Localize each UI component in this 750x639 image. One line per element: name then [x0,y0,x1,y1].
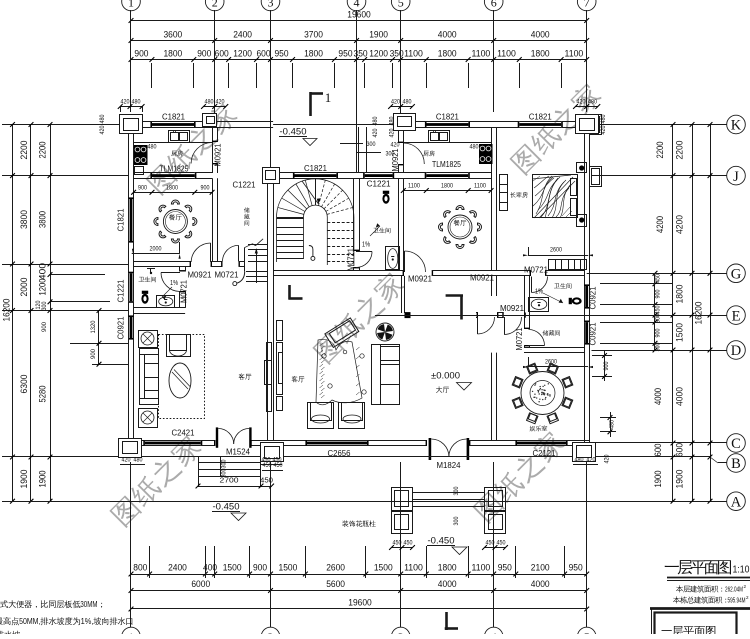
svg-text:600: 600 [215,49,229,59]
svg-text:C2121: C2121 [533,449,556,458]
svg-text:±0.000: ±0.000 [431,371,460,382]
svg-text:-0.450: -0.450 [213,502,240,513]
svg-text:2000: 2000 [19,278,30,297]
kitchen1 stove black [134,145,148,165]
living2 sofa 3-seat east [372,345,400,405]
svg-text:M1524: M1524 [226,448,250,457]
svg-text:2600: 2600 [550,247,562,254]
svg-text:1100: 1100 [472,49,491,59]
living2 small circles decor [360,354,364,358]
entertainment label 娱乐室 [530,425,548,431]
section mark 1 bottom [445,612,448,630]
living2 armchair 1 [308,403,334,429]
kitchen2 stove black [479,144,493,164]
svg-text:C1221: C1221 [233,181,256,190]
vase column dims 450 450 left [392,547,413,549]
svg-text:1500: 1500 [374,563,393,573]
wall axis5 kitchen2 west with door M0921 [398,127,400,143]
svg-text:300: 300 [221,468,228,477]
svg-text:1: 1 [128,630,134,634]
svg-text:420: 420 [600,125,607,134]
svg-text:2: 2 [268,630,274,634]
svg-text:480: 480 [148,144,157,151]
svg-text:2600: 2600 [326,563,345,573]
svg-text:450: 450 [655,305,662,314]
stair up arrow first flight [256,250,258,283]
svg-text:M1824: M1824 [437,461,461,470]
living1 label 客厅 [239,373,252,379]
svg-text:1800: 1800 [438,49,457,59]
ne corner pilaster [576,115,599,134]
svg-text:450: 450 [486,540,495,547]
top extension lines [130,63,132,88]
storage2 dim 2600 [528,366,588,368]
wall stub axis5 below G [401,276,403,313]
svg-text:2: 2 [744,584,747,589]
svg-text:1500: 1500 [279,563,298,573]
svg-text:420: 420 [391,142,400,149]
bottom axis circles [122,627,141,639]
svg-text:1900: 1900 [19,470,30,489]
svg-text:120: 120 [35,300,42,309]
svg-text:480: 480 [389,116,396,125]
svg-text:16200: 16200 [2,299,13,322]
svg-text:1100: 1100 [404,49,423,59]
title block box [650,607,750,610]
door M0721 bath1 leaf and arc [356,251,372,253]
dim 900 right of storage2 window [592,355,612,357]
svg-text:M0921: M0921 [408,275,432,284]
top total dimension line 19600 [131,20,587,22]
svg-text:4000: 4000 [675,387,686,406]
bath2 toilet [569,297,582,304]
door M0721 bedroom to bath2 leaf and arc [531,277,533,293]
door M0921 hall nook leaf and arc [477,317,479,334]
svg-text:4200: 4200 [675,215,686,234]
svg-text:1800: 1800 [166,184,178,191]
label 厨房 kitchen1 [171,150,183,156]
svg-text:M0721: M0721 [215,271,239,280]
right dimension chain lines [672,125,674,502]
hall interior elevation mark [446,294,463,297]
stair newel at second flight [311,256,315,260]
top axis circles [122,0,141,11]
svg-text:1: 1 [128,0,134,10]
entertainment chairs [562,397,573,408]
top axis distances dimension line [131,40,587,42]
svg-text:480: 480 [470,144,479,151]
axis3 col dims 450 450 [261,464,282,466]
black column cap at E wall end [405,312,411,318]
svg-text:4000: 4000 [653,388,663,405]
svg-text:262.04M: 262.04M [725,585,743,594]
svg-text:400: 400 [203,563,217,573]
left porch steps [198,462,261,464]
bottom extension lines [130,462,132,627]
dims 480 420 above x2 pilaster [204,106,226,108]
north wall left section with kitchen window C1821 [128,121,152,123]
sw corner small dims 420 480 [120,464,145,466]
svg-text:950: 950 [498,563,512,573]
svg-text:M0921: M0921 [500,304,524,313]
wall L1 dining bottom with door M0921 and storage door M0721 [134,261,191,263]
svg-text:M0921: M0921 [188,271,212,280]
dims 420 480 above ne corner [576,106,598,108]
svg-text:5600: 5600 [326,579,345,590]
svg-text:900: 900 [655,328,662,337]
stair inner U rail [304,205,328,265]
svg-text:300: 300 [453,486,460,495]
east wall bay boxes [590,115,602,135]
stair first flight rail [244,248,246,271]
bedroom closet strip south [549,260,587,270]
D wall storage2 bottom [524,347,584,349]
svg-text:900: 900 [134,49,148,59]
kitchen1 counter [134,142,213,144]
svg-text:1100: 1100 [404,563,423,573]
svg-text:350: 350 [354,49,368,59]
svg-text:C2421: C2421 [172,429,195,438]
door M0921 kitchen2 leaf and arc [403,143,405,164]
svg-text:TLM1825: TLM1825 [432,160,461,169]
entry double door M1824 [429,438,432,460]
porch recess south wall at J with windows C1821 C1221 [268,172,295,174]
svg-text:950: 950 [274,49,288,59]
svg-text:300: 300 [41,301,48,310]
center porch steps [413,492,485,494]
hall level triangle [457,383,472,391]
axis extension lines into porch [270,63,272,173]
svg-text:450: 450 [274,462,283,469]
svg-text:M0721: M0721 [180,280,189,303]
svg-text:300: 300 [367,141,376,148]
wall axis6 entertainment west [491,353,493,441]
svg-text:19600: 19600 [348,598,372,609]
kitchen1 sink [169,131,190,143]
section mark 1 top [309,92,312,116]
wall G stair bottom / right unit [273,270,404,272]
svg-text:1200: 1200 [369,49,388,59]
svg-text:2: 2 [212,0,218,10]
dining1 label 餐厅 [169,214,182,220]
svg-text:480: 480 [372,116,379,125]
svg-text:900: 900 [655,289,662,298]
living1 end table bottom with plant [139,409,158,428]
living1 armchair top [167,335,191,357]
svg-text:C0921: C0921 [589,286,598,309]
dining2 label 餐厅 [454,220,467,226]
bedroom dim 2600 [528,255,588,257]
door M0921 kitchen1 leaf and arc [212,143,214,164]
svg-text:1%: 1% [362,242,370,249]
svg-text:900: 900 [201,184,210,191]
bedroom bed [533,175,578,218]
wall axis6 stub below G [491,276,493,296]
bath-left toilet [141,291,148,304]
svg-text:3800: 3800 [19,210,30,229]
svg-text:900: 900 [253,563,267,573]
E axis line through hall [375,315,673,317]
svg-text:C: C [731,436,741,452]
living2 label 客厅 [292,376,305,382]
dining1 dim 2000 [132,253,180,255]
svg-text:900: 900 [197,49,211,59]
svg-text:350: 350 [390,49,404,59]
svg-text:E: E [732,308,741,324]
right fine extension lines [600,283,673,285]
svg-text:C2656: C2656 [328,449,351,458]
storage2 label 储藏间 [543,330,560,336]
svg-text:1900: 1900 [38,471,48,488]
left porch steps dim 2700 450 [198,486,272,488]
wall axis2 kitchen east with door M0921 [212,127,214,142]
svg-text:1800: 1800 [163,49,182,59]
svg-text:420: 420 [372,128,379,137]
svg-text:7: 7 [584,0,590,10]
svg-text:900: 900 [41,322,48,332]
axis5 top pilaster [394,114,416,131]
vase column dims 450 450 right [485,547,506,549]
svg-text:D: D [731,343,741,359]
svg-text:30MM: 30MM [80,600,97,609]
right axis letter circles [727,115,746,134]
dining1 round table with chairs [163,210,187,234]
svg-text:480: 480 [588,99,597,106]
top fine dimension line [131,59,587,61]
left porch corner columns [119,439,142,458]
svg-text:600: 600 [256,49,270,59]
svg-text:M0921: M0921 [214,143,223,166]
center porch vase columns right pair [485,488,506,511]
svg-text:TLM1825: TLM1825 [160,165,189,174]
bath1 toilet [382,191,389,204]
annotation text line2 [0,618,3,625]
svg-text:C0921: C0921 [589,322,598,345]
svg-text:595.94M: 595.94M [728,596,746,605]
left axis extension lines [2,124,128,126]
svg-text:B: B [731,456,741,472]
svg-text:1100: 1100 [472,563,491,573]
left fine dims 900 1320 [98,311,100,365]
dims 420 480 above axis5 pilaster [391,106,413,108]
bedroom label 长辈房 [510,192,528,198]
bedroom pillows [571,179,577,196]
svg-text:300: 300 [453,516,460,525]
G axis thin line right of wall [587,273,673,275]
svg-text:3700: 3700 [304,30,323,41]
door M0921 hall nook 2 leaf and arc [504,317,506,335]
bottom fine dimension line [131,574,587,576]
svg-text:19600: 19600 [347,10,371,21]
svg-text:480: 480 [205,99,214,106]
svg-text:4000: 4000 [438,579,457,590]
steps dims 300 300 left [220,457,222,477]
svg-text:1100: 1100 [474,183,486,190]
svg-text:450: 450 [497,540,506,547]
nw corner pilaster [120,115,143,134]
svg-text:1900: 1900 [675,470,686,489]
svg-text:3: 3 [268,0,274,10]
living1 rug dashed [159,335,205,419]
svg-text:300: 300 [386,151,395,158]
svg-text:600: 600 [675,443,686,457]
svg-text:1800: 1800 [531,49,550,59]
svg-text:2200: 2200 [38,142,48,159]
svg-text:950: 950 [338,49,352,59]
annotation text line3 partial [0,631,4,639]
kitchen1 small closet [135,167,144,175]
svg-text:C1821: C1821 [162,113,185,122]
center porch vase columns left pair [392,488,413,511]
bath2 storage2 west wall at 527 with door M0721 [524,276,526,329]
svg-text:A: A [731,494,742,510]
bath2 vanity sink [529,298,549,312]
bath1 vanity sink [386,247,400,270]
bottom total dimension line 19600 [131,608,587,610]
wall at J left unit kitchen south sliding door TLM1825 [134,172,152,174]
east wall with windows C0921 C0921 [584,122,586,286]
svg-text:3: 3 [398,630,404,634]
svg-text:1800: 1800 [304,49,323,59]
wall L2 bath-left bottom [134,307,186,309]
svg-text:6300: 6300 [19,375,30,394]
svg-text:800: 800 [133,563,147,573]
svg-text:M0721: M0721 [347,248,356,271]
svg-text:2400: 2400 [233,30,252,41]
title 一层平面图 1:100 [665,560,731,574]
svg-text:1320: 1320 [90,320,97,333]
wall axis5 bath1 east [398,178,400,271]
wall axis6 bedroom west [491,127,493,271]
svg-text:480: 480 [99,114,106,123]
svg-text:450: 450 [260,476,273,485]
title area text 本层建筑面积 [676,585,722,592]
svg-text:420: 420 [389,128,396,137]
kitchen2 counter [404,142,491,144]
door M0721 storage2 leaf and arc [529,345,545,347]
svg-text:2200: 2200 [655,142,665,159]
right axis line B offset [592,456,711,458]
se corner column [573,443,596,462]
bath-left shower symbol [147,268,155,270]
svg-text:1: 1 [325,90,332,105]
svg-text:420: 420 [577,99,586,106]
svg-text:2400: 2400 [168,563,187,573]
svg-text:C1821: C1821 [304,164,327,173]
svg-text:420: 420 [604,454,611,463]
dining2 round table with chairs [448,215,472,239]
svg-text:K: K [731,118,742,134]
svg-text:2000: 2000 [150,246,162,253]
living2 fan table [376,323,394,341]
south wall with windows and entry doors [128,440,145,442]
se corner dims 480 420 [573,464,598,466]
wall axis2 dining-storage [212,178,214,261]
svg-text:480: 480 [403,99,412,106]
svg-text:420: 420 [121,99,130,106]
svg-text:450: 450 [263,462,272,469]
svg-text:M0921: M0921 [470,274,494,283]
center porch dims 450 450 under M1524 [262,470,283,472]
svg-text:420: 420 [122,457,131,464]
hall label 大厅 [436,386,449,392]
title underline double [667,577,750,579]
svg-text:C1821: C1821 [117,208,126,231]
svg-text:6000: 6000 [191,579,210,590]
svg-text:C0921: C0921 [117,316,126,339]
living2 armchair 2 [339,403,365,429]
living2 TV cabinet east face of wall [277,321,283,341]
svg-text:-0.450: -0.450 [428,536,455,547]
svg-text:C1221: C1221 [117,279,126,302]
svg-text:4200: 4200 [655,216,665,233]
living2 rug wavy [316,339,362,404]
storage1 label 储藏间 vertical [244,207,250,212]
svg-text:420: 420 [99,125,106,134]
svg-text:1900: 1900 [369,30,388,41]
svg-text:1200: 1200 [38,279,48,296]
svg-text:C1821: C1821 [436,113,459,122]
terrace edge line B left [118,456,283,458]
bottom group dimension line [131,590,587,592]
stair winder radial treads [277,217,304,219]
svg-text:1500: 1500 [223,563,242,573]
svg-text:420: 420 [216,99,225,106]
svg-text:900: 900 [138,184,147,191]
svg-text:450: 450 [655,274,662,283]
svg-text:1%,: 1%, [81,617,94,626]
svg-text:1100: 1100 [497,49,516,59]
svg-text:4: 4 [354,0,360,10]
living1 TV cabinet on center wall [267,343,272,412]
left dimension chain lines [12,125,14,502]
stair treads left flight [277,218,304,220]
title area text 本栋总建筑面积 [673,596,726,603]
svg-text:480: 480 [609,420,616,429]
svg-text:900: 900 [90,349,97,359]
svg-text:1100: 1100 [565,49,584,59]
living1 end table top with plant [139,331,158,348]
north wall right section windows C1821 C1821 [398,121,426,123]
svg-text:480: 480 [134,457,143,464]
svg-text:4000: 4000 [531,579,550,590]
svg-text:300: 300 [655,342,662,351]
svg-text:J: J [733,169,739,185]
svg-text:4: 4 [491,630,497,634]
svg-text:1%: 1% [170,280,178,287]
svg-text:480: 480 [575,457,584,464]
svg-text:4000: 4000 [438,30,457,41]
living1 oval coffee table [169,363,191,398]
bath1 label 卫生间 [373,228,390,234]
svg-text:3800: 3800 [38,211,48,228]
svg-text:1800: 1800 [438,563,457,573]
door M0921 dining1 leaf and arc [210,243,212,262]
wall axis3 stair west / living divider [267,178,269,440]
E wall segment with two doors M0921 [476,312,478,314]
svg-text:C1221: C1221 [367,180,392,189]
svg-text:1:10: 1:10 [733,564,750,576]
svg-text:1800: 1800 [675,285,686,304]
svg-text:C1821: C1821 [529,113,552,122]
wall axis4 stair east with door M0721 [353,178,355,251]
right axis lines to letter circles [592,124,727,126]
bath-left vanity sink [157,296,175,308]
svg-text:1200: 1200 [233,49,252,59]
hall west elevation mark [289,297,303,300]
dining2 dims 1100 1800 1100 [403,190,491,192]
svg-text:480: 480 [132,99,141,106]
